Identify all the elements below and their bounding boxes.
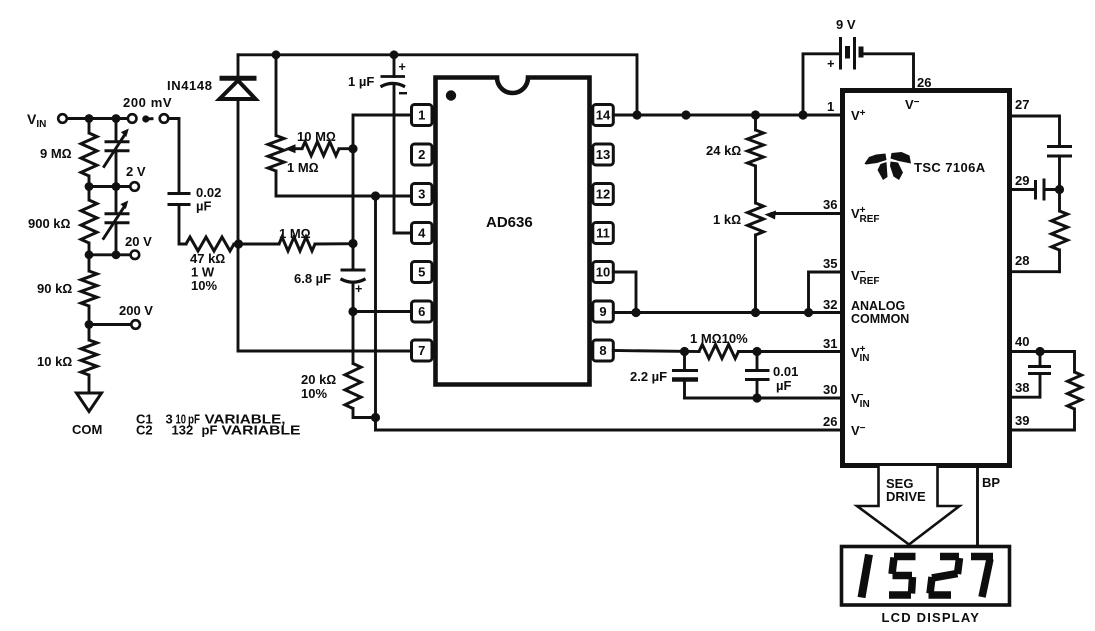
svg-text:BP: BP xyxy=(982,475,1000,490)
svg-text:5: 5 xyxy=(418,265,425,280)
LCD digit 1 xyxy=(862,555,870,598)
diode IN4148 xyxy=(167,78,257,99)
wire 1M top lead xyxy=(275,55,278,136)
wire resistor leads pin 28 xyxy=(1058,190,1061,272)
resistor pin28 xyxy=(1052,211,1068,250)
svg-text:9: 9 xyxy=(599,304,606,319)
node pin3 wire junction xyxy=(371,191,380,200)
resistor 1 MOhm horizontal xyxy=(241,226,353,251)
IC U2 TSC7106A body xyxy=(843,91,1010,466)
svg-text:2: 2 xyxy=(418,147,425,162)
capacitor pin27 xyxy=(1047,147,1072,190)
wire C2 top lead xyxy=(115,187,118,213)
svg-text:6.8 µF: 6.8 µF xyxy=(294,271,331,286)
wire 20k top lead xyxy=(352,312,355,364)
LCD digit 2 xyxy=(929,557,960,596)
pin 8 AD636 xyxy=(589,340,613,361)
svg-text:µF: µF xyxy=(776,378,791,393)
LCD digit 7 xyxy=(971,557,993,598)
wire C1 top lead xyxy=(115,119,118,141)
capacitor pin40 xyxy=(1010,352,1052,398)
svg-text:0.01: 0.01 xyxy=(773,364,798,379)
svg-text:ANALOG: ANALOG xyxy=(851,299,905,313)
node 10M right junction xyxy=(348,144,357,153)
capacitor 6.8 uF xyxy=(294,270,366,296)
svg-text:27: 27 xyxy=(1015,97,1029,112)
svg-text:900 kΩ: 900 kΩ xyxy=(28,216,71,231)
svg-text:11: 11 xyxy=(596,226,610,241)
teledyne logo xyxy=(865,152,912,180)
pin 28 xyxy=(1010,253,1060,272)
LCD display box xyxy=(842,547,1010,606)
resistor 10 kOhm xyxy=(37,340,97,375)
resistor 90 kOhm xyxy=(37,271,97,306)
node 1M horizontal junction xyxy=(348,239,357,248)
svg-text:12: 12 xyxy=(596,187,610,202)
svg-text:29: 29 xyxy=(1015,173,1029,188)
svg-text:4: 4 xyxy=(418,226,426,241)
svg-text:3: 3 xyxy=(418,187,425,202)
node analog common / Vref junction xyxy=(804,308,813,317)
resistor 24 kOhm xyxy=(706,130,764,166)
node pin40 junction xyxy=(1035,347,1044,356)
svg-text:2.2 µF: 2.2 µF xyxy=(630,369,667,384)
pin 5 AD636 xyxy=(412,262,437,283)
resistor 900 kOhm xyxy=(28,200,97,243)
svg-text:10: 10 xyxy=(596,265,610,280)
wire pin8 to 1M10% xyxy=(613,351,699,352)
label SEG DRIVE xyxy=(886,476,926,504)
pin 4 AD636 xyxy=(412,223,437,244)
wire pin10 to pin9 net xyxy=(613,272,636,313)
svg-text:TSC 7106A: TSC 7106A xyxy=(914,160,986,175)
wire Vminus rail to pin 26 xyxy=(376,429,843,432)
node 0.01uF bottom junction xyxy=(752,393,761,402)
wire pin35 Vref minus xyxy=(809,272,843,313)
pin 14 AD636 xyxy=(589,105,613,126)
wire 1M bottom to pin3 wire xyxy=(276,171,412,196)
pin 9 AD636 xyxy=(589,301,613,322)
resistor 1 MOhm 10% xyxy=(690,331,748,359)
svg-text:9 MΩ: 9 MΩ xyxy=(40,146,72,161)
svg-text:2 V: 2 V xyxy=(126,164,146,179)
svg-text:IN4148: IN4148 xyxy=(167,78,213,93)
node 1k bottom junction xyxy=(751,308,760,317)
node 2V junction right xyxy=(112,182,121,191)
node pin29 junction xyxy=(1055,185,1064,194)
capacitor 1 uF xyxy=(348,60,407,93)
node top rail 1M junction xyxy=(272,50,281,59)
wire pin9 analog common rail xyxy=(613,311,842,314)
node 47k junction xyxy=(234,239,243,248)
node 20V tap terminal xyxy=(125,234,152,259)
wire 1M10% to pin 31 xyxy=(739,350,843,353)
wire 6.8uF to pin6 xyxy=(352,282,355,312)
svg-text:24 kΩ: 24 kΩ xyxy=(706,143,741,158)
svg-text:7: 7 xyxy=(418,343,425,358)
LCD digit 5 xyxy=(889,557,916,596)
arrow SEG DRIVE xyxy=(857,466,960,545)
pin 32 analog common xyxy=(823,297,909,326)
capacitor 0.02 uF xyxy=(168,185,222,214)
pin 11 AD636 xyxy=(589,223,613,244)
ground COM xyxy=(72,393,102,437)
svg-text:AD636: AD636 xyxy=(486,214,533,231)
svg-text:28: 28 xyxy=(1015,253,1029,268)
node pin9 junction xyxy=(631,308,640,317)
wire 9M to 900k xyxy=(88,176,91,200)
op-amp U1 AD636 body xyxy=(436,78,590,385)
svg-text:26: 26 xyxy=(917,75,931,90)
wire 20k bottom elbow xyxy=(353,409,376,418)
svg-text:1 MΩ: 1 MΩ xyxy=(287,160,319,175)
node 20V junction right xyxy=(112,250,121,259)
wire 1k wiper to pin 36 xyxy=(765,211,843,220)
resistor 10 MOhm with wiper arrow xyxy=(285,129,354,156)
svg-text:39: 39 xyxy=(1015,413,1029,428)
svg-text:32: 32 xyxy=(823,297,837,312)
svg-text:35: 35 xyxy=(823,256,837,271)
capacitor C2 variable xyxy=(104,201,130,239)
pin 13 AD636 xyxy=(589,144,613,165)
capacitor 2.2 uF xyxy=(630,352,698,399)
pin 36 Vref+ xyxy=(823,197,880,225)
node 2.2uF top junction xyxy=(680,347,689,356)
resistor 47 kOhm 1W 10% xyxy=(186,237,236,293)
svg-text:+: + xyxy=(355,282,362,296)
node 200V tap terminal xyxy=(89,303,153,329)
svg-text:8: 8 xyxy=(599,343,606,358)
resistor 20 kOhm 10% xyxy=(301,364,361,409)
node 2V junction left xyxy=(85,182,94,191)
wire 1uF top lead xyxy=(393,55,396,77)
svg-text:9 V: 9 V xyxy=(836,17,856,32)
wire 900k to 90k xyxy=(88,243,91,271)
pin 3 AD636 xyxy=(412,184,437,205)
wire VIN to range switch xyxy=(67,117,128,120)
svg-text:1: 1 xyxy=(418,108,425,123)
pin 2 AD636 xyxy=(412,144,437,165)
wire divider top lead xyxy=(88,119,91,134)
svg-text:20 V: 20 V xyxy=(125,234,152,249)
wire C1 bottom lead xyxy=(115,151,118,187)
wire 10k to ground xyxy=(88,375,91,393)
svg-text:1 MΩ10%: 1 MΩ10% xyxy=(690,331,748,346)
capacitor 0.01 uF xyxy=(745,352,798,399)
wire 47k junction down to pin7 xyxy=(238,244,412,351)
wire 1uF to pin4 xyxy=(394,84,412,233)
svg-text:1 µF: 1 µF xyxy=(348,74,374,89)
svg-text:20 kΩ: 20 kΩ xyxy=(301,372,336,387)
pin 27 xyxy=(1010,97,1060,145)
resistor 1 MOhm vertical xyxy=(268,136,319,176)
svg-text:LCD DISPLAY: LCD DISPLAY xyxy=(882,610,981,625)
wire 20V tap xyxy=(89,253,130,256)
wire pin1 net vertical xyxy=(353,115,412,244)
pin 12 AD636 xyxy=(589,184,613,205)
pin 26 top V- xyxy=(905,75,931,112)
svg-text:1: 1 xyxy=(827,99,834,114)
wire top rail xyxy=(238,55,637,115)
svg-text:10 kΩ: 10 kΩ xyxy=(37,354,72,369)
svg-text:40: 40 xyxy=(1015,334,1029,349)
wire pin3 junction down to Vminus rail xyxy=(374,196,377,430)
pin 31 Vin+ xyxy=(823,336,870,364)
pin 1 AD636 xyxy=(412,105,437,126)
node junction divider top xyxy=(85,114,94,123)
svg-text:DRIVE: DRIVE xyxy=(886,489,926,504)
battery 9V xyxy=(803,17,914,115)
node VIN input terminal xyxy=(27,111,67,130)
pin 1 V+ xyxy=(827,99,866,123)
svg-text:1 kΩ: 1 kΩ xyxy=(713,212,741,227)
pin 30 Vin- xyxy=(823,382,870,410)
svg-text:14: 14 xyxy=(596,108,611,123)
pin 35 Vref- xyxy=(823,256,880,287)
wire 24k top lead xyxy=(754,115,757,130)
svg-text:38: 38 xyxy=(1015,380,1029,395)
node pin6 junction xyxy=(348,307,357,316)
svg-text:200 mV: 200 mV xyxy=(123,95,172,110)
pin 26 left V- xyxy=(823,414,866,438)
wire 6.8uF top lead xyxy=(352,244,355,269)
node 200V junction xyxy=(85,320,94,329)
wire switch to 0.02uF xyxy=(168,119,179,193)
svg-text:31: 31 xyxy=(823,336,837,351)
wire 24k to 1k xyxy=(754,166,757,203)
wire pin6 xyxy=(353,310,412,313)
capacitor C1 variable xyxy=(104,129,130,167)
node 20V junction left xyxy=(85,250,94,259)
svg-text:200 V: 200 V xyxy=(119,303,153,318)
svg-text:COMMON: COMMON xyxy=(851,312,909,326)
wire diode to 47k junction xyxy=(237,100,240,245)
pin 10 AD636 xyxy=(589,262,613,283)
resistor 9 MOhm xyxy=(40,133,97,176)
node Vminus junction xyxy=(371,413,380,422)
svg-text:90 kΩ: 90 kΩ xyxy=(37,281,72,296)
potentiometer 1 kOhm xyxy=(713,203,764,235)
wire pin30 Vin minus xyxy=(685,397,843,400)
wire pin14 to V+ xyxy=(613,114,842,117)
resistor pin39 xyxy=(1068,372,1082,409)
pin 39 xyxy=(1010,409,1075,430)
wire 90k to 10k xyxy=(88,306,91,340)
wire BP xyxy=(978,466,1001,547)
wire 0.02uF to 47k xyxy=(179,205,186,245)
node junction top rail drop xyxy=(632,110,641,119)
wire C2 bottom lead xyxy=(115,223,118,255)
switch 200 mV range contact xyxy=(123,95,172,123)
svg-text:10%: 10% xyxy=(191,278,217,293)
svg-text:6: 6 xyxy=(418,304,425,319)
svg-text:13: 13 xyxy=(596,147,610,162)
svg-text:30: 30 xyxy=(823,382,837,397)
wire 1k bottom to analog common xyxy=(754,235,757,313)
svg-text:µF: µF xyxy=(196,199,211,214)
node junction 24k top xyxy=(751,110,760,119)
note C1 C2 values xyxy=(136,412,301,438)
svg-text:36: 36 xyxy=(823,197,837,212)
node 0.01uF top junction xyxy=(752,347,761,356)
node junction battery plus xyxy=(798,110,807,119)
svg-text:26: 26 xyxy=(823,414,837,429)
node 2V tap terminal xyxy=(116,164,146,191)
svg-text:+: + xyxy=(827,56,835,71)
pin 7 AD636 xyxy=(412,340,437,361)
node top rail 1uF junction xyxy=(390,50,399,59)
wire diode top lead xyxy=(237,55,240,77)
svg-text:10%: 10% xyxy=(301,386,327,401)
pin 6 AD636 xyxy=(412,301,437,322)
wire 2V tap dashed xyxy=(89,185,116,188)
svg-text:COM: COM xyxy=(72,422,102,437)
pin 29 series capacitor xyxy=(1010,173,1060,201)
node junction mid xyxy=(681,110,690,119)
svg-text:+: + xyxy=(399,60,406,74)
node junction C1 top xyxy=(112,114,121,123)
pin 40 xyxy=(1010,334,1075,372)
